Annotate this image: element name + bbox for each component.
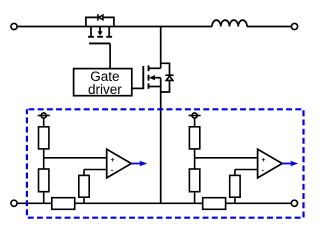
svg-text:driver: driver bbox=[88, 82, 122, 97]
